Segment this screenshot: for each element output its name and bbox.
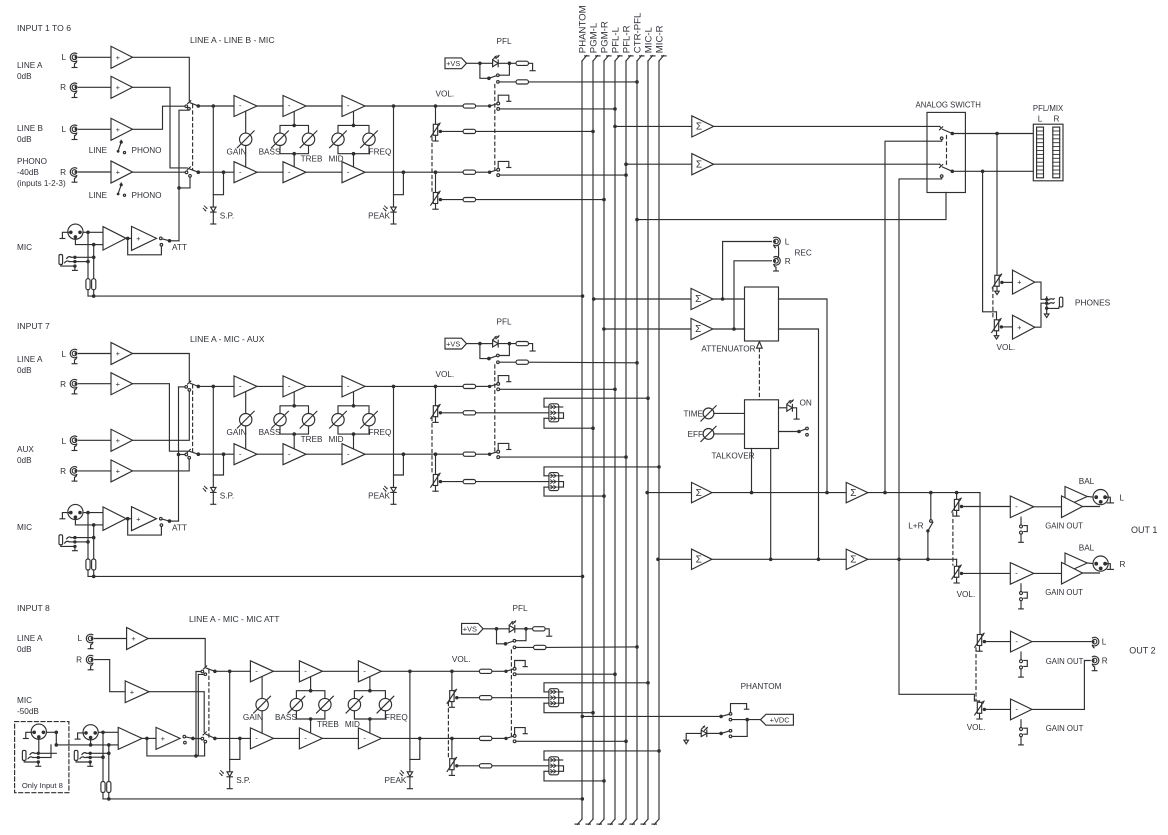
switch PFL contact up: [513, 639, 516, 642]
wire: [55, 732, 57, 745]
op-amp U-sum PFL-L: [692, 116, 714, 137]
wire: [95, 660, 126, 692]
wire: [442, 412, 463, 414]
switch meter R contact MIX: [940, 175, 943, 178]
op-amp CA2 (row L): [299, 661, 322, 682]
wire: [984, 641, 1010, 643]
wire: [686, 733, 701, 740]
wire: [956, 493, 958, 500]
connector RCA LINE A L: [70, 349, 77, 364]
resistor: [533, 627, 546, 631]
wire: [103, 731, 118, 733]
node PEAK tap row L: [408, 670, 412, 674]
pot EFF: [701, 426, 716, 441]
node: [92, 575, 96, 579]
wire: [79, 383, 112, 385]
op-amp master sum R2: [846, 549, 868, 569]
svg-text:TIME: TIME: [683, 410, 703, 419]
node S.P. tap row L: [212, 385, 216, 389]
resistor: [479, 736, 492, 740]
wire: [482, 343, 493, 345]
svg-text:-: -: [239, 101, 242, 110]
wire: [962, 506, 1011, 508]
svg-text:PFL-R: PFL-R: [621, 25, 632, 53]
svg-text:L: L: [1120, 494, 1125, 503]
node: [352, 432, 356, 436]
switch ATT pole: [168, 239, 172, 243]
flag +VS: [462, 623, 484, 634]
connector RCA AUX L: [70, 436, 77, 450]
node PFL bus: [624, 455, 628, 459]
svg-text:L: L: [61, 125, 66, 134]
svg-text:REC: REC: [795, 249, 812, 258]
svg-text:-: -: [304, 667, 307, 676]
wire: [142, 737, 156, 739]
switch selector1 contact MIC: [188, 108, 191, 111]
node PGM bus: [591, 130, 595, 134]
svg-text:R: R: [60, 83, 66, 92]
wire talkover to master R: [770, 449, 772, 560]
wire ATT bypass: [128, 519, 162, 535]
connector RCA OUT2 R: [1092, 656, 1099, 671]
wire: [779, 407, 787, 409]
svg-text:-: -: [1015, 502, 1018, 511]
wire to PFL bus: [500, 174, 626, 176]
flag +VS: [445, 338, 467, 349]
svg-text:LINE A - MIC - AUX: LINE A - MIC - AUX: [190, 334, 265, 344]
wire: [198, 385, 234, 387]
wire: [310, 719, 312, 732]
node: [955, 491, 959, 495]
node MIC-R bus: [656, 558, 660, 562]
node: [101, 731, 105, 735]
svg-text:L: L: [785, 238, 790, 247]
svg-text:PGM-R: PGM-R: [599, 21, 610, 53]
switch PFL arm: [489, 76, 497, 79]
wire: [409, 777, 411, 789]
svg-text:ON: ON: [800, 399, 812, 408]
connector TRS MIC jack: [59, 535, 77, 551]
svg-text:ANALOG SWICTH: ANALOG SWICTH: [916, 101, 981, 110]
node: [107, 743, 111, 747]
switch PFL contact up: [497, 354, 500, 357]
wire: [353, 154, 355, 167]
node: [92, 536, 96, 540]
wire: [79, 353, 112, 355]
wire MIC ATT to selector1: [198, 674, 204, 756]
tick: [744, 708, 748, 710]
op-amp BB1 (row R): [234, 444, 257, 465]
gang dashed VOL: [431, 417, 433, 473]
fader PHONES R: [992, 318, 1003, 339]
node MIC bus: [657, 465, 661, 469]
wire: [245, 111, 247, 133]
connector XLR MIC: [60, 224, 83, 239]
op-amp BAL driver L: [1062, 487, 1088, 518]
wire: [498, 343, 516, 345]
svg-text:-: -: [347, 449, 350, 458]
svg-text:AUX: AUX: [17, 445, 34, 454]
node: [309, 717, 313, 721]
switch ATT pole: [168, 519, 172, 523]
wire phantom line: [103, 793, 582, 799]
wire: [529, 344, 533, 351]
node: [926, 558, 930, 562]
op-amp AA2 (row L): [283, 96, 306, 117]
trimmer GAIN OUT 2L: [1019, 652, 1028, 677]
wire: [492, 697, 549, 699]
switch selector2 contact LINE A: [203, 732, 206, 735]
wire: [480, 63, 489, 78]
svg-text:MIC: MIC: [17, 243, 32, 252]
wire: [713, 298, 745, 300]
svg-text:0dB: 0dB: [17, 135, 32, 144]
wire ATT bypass: [128, 238, 162, 254]
svg-text:LINE A - MIC - MIC ATT: LINE A - MIC - MIC ATT: [189, 614, 280, 624]
svg-text:LINE: LINE: [89, 191, 108, 200]
node: [86, 540, 90, 544]
wire: [483, 628, 496, 630]
svg-text:LINE A: LINE A: [17, 61, 43, 70]
wire: [956, 559, 958, 566]
wire: [365, 105, 436, 107]
svg-text:INPUT 1 TO 6: INPUT 1 TO 6: [17, 23, 71, 33]
wire: [108, 745, 110, 782]
wire LINE A L to selector: [133, 57, 190, 101]
wire to PFL bus: [500, 388, 615, 390]
wire: [435, 386, 437, 405]
svg-text:0dB: 0dB: [17, 456, 32, 465]
section OUT 2: [899, 493, 1156, 745]
switch selector1 pole: [197, 385, 201, 389]
wire: [529, 81, 638, 83]
switch selector2 contact AUX: [188, 456, 191, 459]
gang dashed link: [494, 85, 496, 170]
op-amp BB2 (row R): [283, 444, 306, 465]
wire: [198, 105, 234, 107]
wire: [310, 677, 312, 690]
svg-text:PFL: PFL: [496, 317, 511, 326]
wire: [338, 426, 369, 434]
svg-text:FREQ: FREQ: [369, 148, 392, 157]
switch ATT arm: [162, 519, 169, 521]
op-amp MIC pre: [103, 507, 126, 531]
switch ATT pole: [191, 737, 195, 741]
op-amp in LINE A R: [111, 373, 133, 395]
connector RCA LINE A R: [86, 655, 93, 669]
wire: [75, 541, 88, 543]
connector RCA LINE A R: [70, 83, 77, 97]
fader VOL B: [431, 404, 442, 422]
node PFL-L bus: [613, 125, 617, 129]
resistor: [463, 198, 476, 202]
wire: [353, 434, 355, 448]
wire: [459, 765, 480, 767]
wire: [459, 697, 480, 699]
wire: [1001, 326, 1012, 328]
wire: [212, 492, 214, 504]
switch talkover contact: [806, 427, 809, 430]
wire: [497, 629, 506, 644]
fader VOL B: [431, 473, 442, 491]
switch meter R pole: [951, 170, 955, 174]
node VOL tap: [434, 104, 438, 108]
fader OUT2 R: [975, 701, 986, 719]
svg-text:-: -: [347, 382, 350, 391]
node PFL bus: [613, 672, 617, 676]
node PEAK tap row L: [392, 104, 396, 108]
wire PHONO R to selector: [133, 171, 186, 173]
svg-text:PFL: PFL: [496, 37, 511, 46]
wire MIC to selector2: [179, 177, 190, 188]
wire: [394, 454, 404, 475]
pot BASS C: [288, 696, 305, 713]
wire: [338, 146, 369, 154]
node S.P. tap row L: [228, 670, 232, 674]
connector RCA LINE A L: [70, 53, 77, 68]
wire: [83, 231, 88, 233]
ground: [211, 223, 216, 225]
switch selector1 arm: [190, 103, 198, 106]
wire MIC-R to master: [658, 558, 692, 560]
node: [478, 62, 482, 66]
node: [89, 743, 93, 747]
svg-text:-: -: [347, 101, 350, 110]
node VOL tap: [450, 737, 454, 741]
svg-text:L: L: [1102, 638, 1107, 647]
svg-text:R: R: [60, 467, 66, 476]
svg-text:PHONO: PHONO: [132, 191, 162, 200]
node CTR-PFL: [635, 361, 639, 365]
section REC / ATTENUATOR: [592, 237, 827, 559]
switch phantom contact: [729, 729, 732, 732]
wire AUX R to selector: [133, 459, 190, 471]
svg-text:PGM-L: PGM-L: [588, 22, 599, 53]
section PHONES: [983, 134, 1111, 353]
wire: [1087, 562, 1092, 565]
wire attenuator L out: [779, 299, 828, 493]
switch LINE/PHONO: [117, 140, 126, 153]
ground: [391, 223, 396, 225]
node: [825, 491, 829, 495]
flag +VS: [445, 58, 467, 69]
wire: [87, 232, 89, 278]
wire phantom line: [88, 570, 583, 576]
node PHANTOM bus: [581, 575, 585, 579]
op-amp AB1 (row R): [234, 162, 257, 183]
wire: [515, 628, 533, 630]
node VOL tap: [434, 170, 438, 174]
op-amp in LINE A R: [125, 681, 149, 703]
op-amp in LINE B/PHONO L: [111, 118, 133, 140]
svg-text:-: -: [288, 101, 291, 110]
svg-text:ATTENUATOR: ATTENUATOR: [701, 345, 755, 354]
wire: [354, 711, 385, 719]
wire: [87, 756, 103, 758]
svg-text:L: L: [77, 634, 82, 643]
svg-text:-: -: [239, 167, 242, 176]
node: [55, 743, 59, 747]
connector TRS MIC jack1: [22, 750, 40, 766]
node S.P. tap row R: [238, 737, 242, 741]
wire: [79, 470, 112, 472]
node PEAK tap row R: [418, 737, 422, 741]
svg-text:Σ: Σ: [850, 555, 856, 566]
node: [107, 797, 111, 801]
dashed talkover control: [758, 349, 760, 400]
LED S.P. C: [220, 771, 233, 777]
svg-text:-50dB: -50dB: [17, 707, 39, 716]
svg-text:0dB: 0dB: [17, 366, 32, 375]
wire: [90, 738, 92, 745]
LED PEAK B: [383, 486, 396, 492]
wire LINE A R to selector: [133, 87, 188, 168]
svg-text:INPUT 7: INPUT 7: [17, 321, 50, 331]
svg-text:+: +: [116, 168, 121, 177]
svg-text:LINE A - LINE B - MIC: LINE A - LINE B - MIC: [190, 35, 275, 45]
wire: [75, 518, 93, 525]
wire: [476, 171, 490, 173]
connector RCA REC R: [773, 257, 780, 271]
svg-text:-: -: [255, 734, 258, 743]
node: [524, 627, 528, 631]
svg-text:+: +: [116, 379, 121, 388]
svg-text:TREB: TREB: [301, 435, 323, 444]
wire PGM-L to sum: [594, 298, 691, 300]
node: [495, 627, 499, 631]
resistor: [463, 480, 476, 484]
node: [478, 342, 482, 346]
svg-text:R: R: [60, 168, 66, 177]
op-amp in LINE A L: [111, 343, 133, 365]
connector XLR OUT1 R: [1093, 556, 1113, 571]
wire: [213, 172, 223, 195]
svg-text:PFL-L: PFL-L: [610, 26, 621, 53]
op-amp in AUX R: [111, 460, 133, 482]
wire: [245, 146, 247, 168]
wire: [394, 172, 404, 195]
wire PEAK riser C: [409, 671, 411, 772]
wire master R to OUT2: [899, 559, 980, 702]
op-amp CB1 (row R): [250, 728, 273, 749]
meter PFL/MIX bargraph: [1033, 124, 1063, 181]
svg-text:GAIN: GAIN: [226, 428, 246, 437]
wire PHANTOM bus to switch: [582, 715, 721, 717]
node: [897, 558, 901, 562]
svg-text:TALKOVER: TALKOVER: [712, 452, 755, 461]
resistor: [463, 129, 476, 133]
wire: [868, 492, 980, 494]
op-amp AA1 (row L): [234, 96, 257, 117]
svg-text:Σ: Σ: [695, 294, 701, 305]
wire: [708, 732, 722, 734]
resistor: [463, 384, 476, 388]
wire: [1087, 496, 1092, 499]
switch selector1 pole: [213, 670, 217, 674]
resistor phantom feed: [101, 782, 105, 793]
node PFL bus: [624, 173, 628, 177]
wire: [126, 518, 132, 520]
node: [883, 491, 887, 495]
wire AUX L to selector: [133, 391, 190, 440]
wire: [714, 163, 940, 165]
wire: [109, 744, 118, 746]
wire: [1032, 661, 1090, 710]
wire: [365, 385, 436, 387]
resistor: [516, 61, 529, 65]
wire to PFL bus: [516, 740, 626, 742]
wire: [296, 691, 325, 699]
node PEAK tap row R: [402, 170, 406, 174]
connector RCA AUX R: [70, 467, 77, 481]
ground arrow: [1044, 314, 1049, 318]
switch PFL B: [488, 443, 511, 458]
connector RCA OUT2 L: [1092, 637, 1099, 648]
node: [750, 491, 754, 495]
resistor: [516, 80, 529, 84]
node PGM bus: [602, 779, 606, 783]
connector XLR MIC input8: [23, 724, 46, 739]
switch PFL contact out: [497, 361, 500, 364]
node: [86, 511, 90, 515]
svg-text:PHANTOM: PHANTOM: [741, 682, 782, 691]
wire: [381, 737, 452, 739]
svg-text:LINE A: LINE A: [17, 634, 43, 643]
wire to MIC bus: [544, 467, 659, 476]
wire: [435, 454, 437, 474]
op-amp PHONES R: [1013, 315, 1035, 339]
ground: [547, 635, 552, 637]
wire: [47, 731, 56, 733]
switch selector1 contact MIC: [185, 386, 188, 389]
node: [92, 294, 96, 298]
gang dashed selector: [192, 105, 194, 171]
wire: [1032, 641, 1091, 643]
svg-text:L: L: [61, 437, 66, 446]
wire: [170, 240, 180, 242]
fader VOL A: [431, 191, 442, 209]
op-amp BAL driver R: [1062, 553, 1088, 584]
switch selector1 contact AUX: [188, 389, 191, 392]
pot GAIN A: [237, 131, 254, 148]
op-amp AB3 (row R): [342, 162, 365, 183]
switch selector2 arm: [190, 451, 199, 454]
switch selector2 contact MIC: [185, 453, 188, 456]
LED PEAK A: [383, 206, 396, 212]
wire to MIC bus: [544, 683, 648, 692]
wire: [102, 732, 104, 781]
svg-text:-: -: [1015, 637, 1018, 646]
section PHANTOM power: [581, 682, 794, 744]
switch selector1 arm: [190, 383, 198, 386]
switch PFL arm: [489, 356, 497, 359]
wire: [75, 537, 94, 539]
wire: [87, 513, 89, 559]
op-amp BA1 (row L): [234, 376, 257, 397]
wire: [88, 231, 103, 233]
wire: [261, 711, 263, 733]
section meters and analog switch: [613, 101, 1064, 560]
resistor phantom feed: [92, 279, 96, 290]
svg-text:S.P.: S.P.: [220, 492, 234, 501]
fader VOL C: [447, 689, 458, 707]
gang dashed OUT1 vol: [952, 513, 954, 565]
node PGM bus: [602, 198, 606, 202]
switch selector1 contact MIC ATT: [204, 673, 207, 676]
connector XLR MIC all inputs: [75, 725, 98, 740]
op-amp master sum L1: [692, 482, 712, 502]
wire: [996, 134, 998, 276]
